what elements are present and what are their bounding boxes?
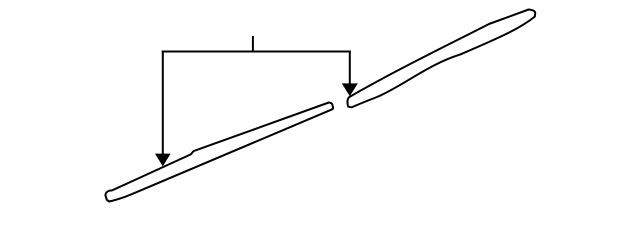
upper molding strip	[347, 10, 535, 108]
left arrowhead	[155, 154, 171, 167]
label tick	[252, 36, 254, 52]
left leader wire	[162, 51, 164, 157]
right arrowhead	[342, 83, 358, 96]
right leader wire	[349, 51, 351, 87]
lower molding strip	[105, 103, 333, 202]
bracket horizontal wire	[162, 51, 351, 53]
